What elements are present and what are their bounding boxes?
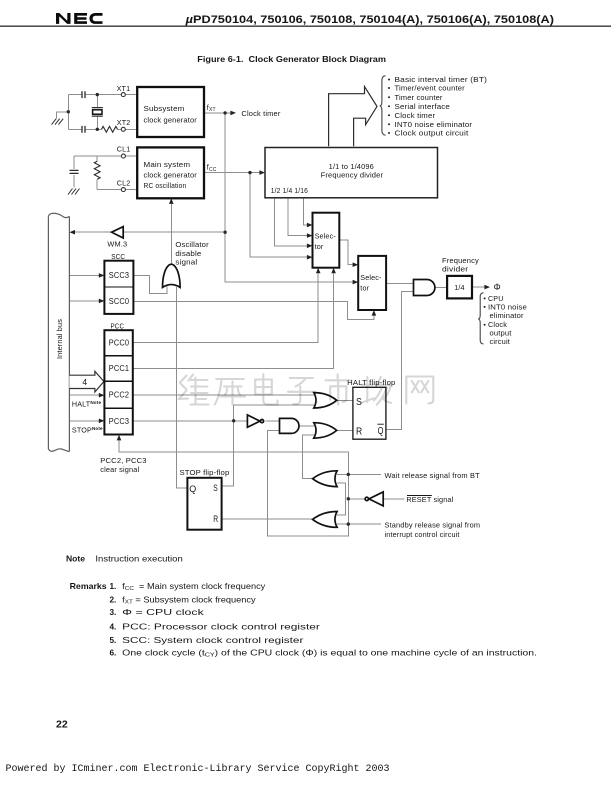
svg-text:PCC2: PCC2 [109, 390, 130, 399]
svg-text:Clock timer: Clock timer [241, 109, 281, 118]
svg-text:Q: Q [378, 425, 384, 437]
svg-text:fCC = Main system clock frequ: fCC = Main system clock frequency [122, 582, 266, 592]
svg-text:tor: tor [360, 284, 369, 293]
svg-text:Selec-: Selec- [360, 273, 382, 282]
svg-text:Clock timer: Clock timer [395, 111, 436, 120]
svg-text:6.: 6. [109, 649, 116, 658]
svg-text:tor: tor [315, 242, 324, 251]
svg-text:clock generator: clock generator [144, 115, 198, 124]
svg-text:S: S [213, 483, 218, 493]
svg-text:Q: Q [189, 484, 196, 494]
svg-text:SCC: System clock control reg: SCC: System clock control register [122, 636, 304, 645]
svg-text:Timer counter: Timer counter [395, 93, 444, 102]
svg-text:2.: 2. [109, 595, 116, 604]
svg-text:Selec-: Selec- [315, 231, 337, 240]
svg-text:Instruction execution: Instruction execution [95, 555, 183, 564]
svg-text:Φ = CPU clock: Φ = CPU clock [122, 608, 205, 617]
svg-text:R: R [213, 514, 218, 524]
svg-text:5.: 5. [109, 636, 116, 645]
svg-text:Note: Note [66, 555, 85, 564]
svg-text:Timer/event counter: Timer/event counter [395, 84, 466, 93]
svg-text:Figure 6-1. Clock Generator B: Figure 6-1. Clock Generator Block Diagra… [197, 54, 386, 64]
svg-text:PCC3: PCC3 [109, 417, 130, 426]
svg-text:Remarks: Remarks [70, 582, 108, 591]
svg-text:PCC1: PCC1 [109, 364, 130, 373]
svg-text:Oscillator: Oscillator [175, 240, 209, 249]
svg-text:Clock output circuit: Clock output circuit [395, 129, 469, 138]
svg-text:Subsystem: Subsystem [144, 104, 185, 113]
svg-text:circuit: circuit [490, 337, 511, 346]
svg-text:3.: 3. [109, 608, 116, 617]
svg-text:Internal bus: Internal bus [55, 319, 64, 359]
svg-text:Wait release signal from BT: Wait release signal from BT [385, 471, 481, 480]
svg-text:1/4: 1/4 [454, 283, 464, 292]
svg-text:Powered by ICminer.com Electro: Powered by ICminer.com Electronic-Librar… [6, 763, 390, 775]
svg-text:WM.3: WM.3 [107, 240, 127, 249]
svg-text:Standby release signal from: Standby release signal from [385, 521, 481, 530]
svg-text:signal: signal [175, 258, 197, 267]
svg-text:PCC0: PCC0 [109, 338, 130, 347]
svg-text:clock generator: clock generator [144, 171, 198, 180]
svg-text:Serial interface: Serial interface [395, 102, 451, 111]
svg-text:Φ: Φ [494, 282, 501, 292]
svg-text:XT1: XT1 [117, 84, 131, 93]
svg-text:SCC3: SCC3 [109, 271, 130, 280]
svg-text:RC oscillation: RC oscillation [144, 181, 187, 190]
svg-text:PCC: PCC [111, 322, 125, 331]
svg-text:1/2 1/4 1/16: 1/2 1/4 1/16 [271, 186, 308, 195]
svg-text:SCC: SCC [111, 252, 125, 261]
svg-text:interrupt control circuit: interrupt control circuit [385, 530, 460, 539]
svg-text:Main system: Main system [144, 160, 191, 169]
svg-text:CL1: CL1 [117, 145, 131, 154]
svg-text:4.: 4. [109, 622, 116, 631]
svg-text:XT2: XT2 [117, 118, 131, 127]
svg-text:22: 22 [56, 719, 68, 731]
svg-text:STOP flip-flop: STOP flip-flop [180, 468, 230, 477]
svg-text:µPD750104, 750106, 750108, 750: µPD750104, 750106, 750108, 750104(A), 75… [185, 14, 555, 26]
svg-text:fXT = Subsystem clock frequenc: fXT = Subsystem clock frequency [122, 595, 256, 605]
svg-text:PCC2, PCC3: PCC2, PCC3 [100, 456, 146, 465]
svg-text:SCC0: SCC0 [109, 297, 130, 306]
svg-text:eliminator: eliminator [490, 311, 525, 320]
svg-text:divider: divider [442, 264, 469, 273]
svg-text:One clock cycle (tCY) of the C: One clock cycle (tCY) of the CPU clock (… [122, 649, 537, 659]
svg-text:CL2: CL2 [117, 179, 131, 188]
svg-text:Frequency divider: Frequency divider [321, 171, 384, 180]
svg-text:RESET signal: RESET signal [406, 495, 453, 504]
svg-text:1.: 1. [109, 582, 116, 591]
svg-text:clear signal: clear signal [100, 465, 139, 474]
svg-text:INT0 noise eliminator: INT0 noise eliminator [395, 120, 473, 129]
svg-text:4: 4 [82, 377, 87, 387]
svg-text:PCC: Processor clock control: PCC: Processor clock control register [122, 622, 320, 631]
svg-text:R: R [356, 426, 363, 438]
